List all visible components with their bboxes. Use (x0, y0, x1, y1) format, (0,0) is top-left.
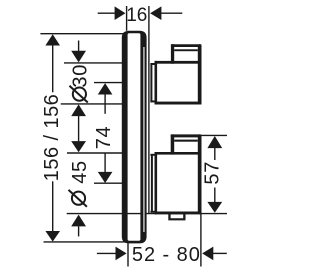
svg-text:52 - 80: 52 - 80 (132, 244, 201, 266)
wire dim 74 line lower (104, 153, 106, 173)
wire ext line handle1-bottom (O30 bottom) (61, 103, 123, 105)
handle U1 flag top edge (171, 44, 202, 47)
wire ext line 16-left vertical (126, 6, 128, 31)
node centerline handle2 (94, 182, 123, 184)
collar U2 (bottom handle) (150, 154, 155, 213)
collar U1 (top handle) (150, 63, 155, 102)
node centerline handle1 (94, 82, 123, 84)
wire ext line 52-80 right vertical (200, 214, 202, 267)
arrow O45 bottom (up) (71, 215, 86, 227)
wire dim 52-80 right lead (213, 252, 227, 254)
arrow 156 bottom (45, 231, 60, 242)
label O30 diameter symbol (69, 86, 87, 103)
arrow 16 left (115, 6, 126, 20)
wire dim 156 line lower (52, 181, 54, 231)
wire ext line plate-bottom (156 bottom) (44, 241, 130, 243)
wire dim O45 lower stub (78, 226, 80, 236)
wire ext line 16-right vertical (long) (148, 6, 150, 213)
arrow O30 bottom (up) (71, 104, 86, 116)
svg-text:57: 57 (202, 161, 224, 185)
wire dim O30/O45 middle stub (78, 116, 80, 142)
label O45 diameter symbol (69, 190, 87, 207)
handle U1 (top, shut-off) body top edge (155, 61, 202, 64)
wire ext line handle1-top (O30 top) (64, 62, 123, 64)
wire dim 156 line upper (52, 45, 54, 92)
handle U1 body back (left) edge (155, 61, 158, 105)
wire ext line plate-top (156 top) (40, 33, 123, 35)
wire dim 52-80 left lead (97, 252, 116, 254)
arrow 57 top (up) (207, 136, 222, 148)
handle U1 front edge (198, 44, 202, 104)
svg-text:156 / 156: 156 / 156 (41, 94, 63, 181)
wire dim 57 line upper (214, 148, 216, 161)
svg-text:45: 45 (69, 160, 91, 184)
handle U2 (bottom, thermostat) body top edge (155, 152, 202, 155)
handle U2 flag top edge (171, 134, 202, 137)
wire dim 74 line upper (104, 94, 106, 114)
handle U2 body back (left) edge (155, 152, 158, 214)
wire dim 57 line lower (214, 188, 216, 203)
wire ext line handle2-bottom (O45 / 57 bottom) (67, 213, 147, 215)
svg-text:30: 30 (69, 64, 91, 88)
arrow 57 bottom (down) (207, 202, 222, 213)
svg-text:16: 16 (126, 5, 147, 26)
handle U1 flag left edge (171, 44, 174, 64)
handle U1 body bottom edge (155, 102, 202, 105)
svg-text:74: 74 (93, 126, 115, 150)
handle U2 body bottom edge (155, 212, 202, 215)
arrow O30 top (down) (71, 51, 86, 63)
arrow 52-80 right (left-pointing) (202, 247, 213, 261)
handle U2 front edge (198, 134, 202, 214)
handle U1 flag groove line (174, 49, 198, 51)
escutcheon plate side view (122, 31, 147, 244)
plate seam slit (143, 47, 144, 232)
arrow O45 top (down) (71, 141, 86, 152)
handle U2 flag left edge (171, 134, 175, 154)
wire ext line 52-80 left vertical (127, 243, 129, 267)
wire dim 16 left lead (98, 12, 116, 14)
arrow 74 bottom (down) (98, 172, 113, 183)
wire ext line flag2-top (57 top) (201, 134, 227, 136)
handle U2 flag groove line (174, 140, 198, 142)
arrow 74 top (up) (98, 83, 113, 94)
arrow 16 right (150, 6, 161, 20)
tab at bottom of handle U2 (168, 213, 185, 221)
wire dim O30 upper stub (78, 41, 80, 52)
arrow 52-80 left (right-pointing) (116, 247, 127, 261)
wire dim 16 right lead (161, 12, 182, 14)
wire ext line handle2-top (O45 top) (67, 152, 123, 154)
arrow 156 top (45, 34, 60, 45)
